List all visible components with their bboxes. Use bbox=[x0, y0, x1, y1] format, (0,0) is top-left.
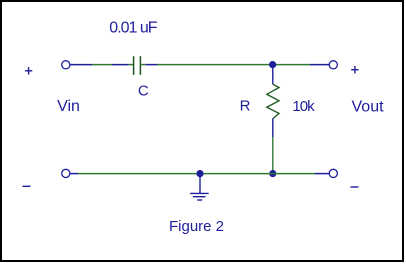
polarity minus (Vout) bbox=[351, 186, 359, 188]
terminal T2 (Vout +) bbox=[329, 61, 337, 69]
polarity plus (Vout) bbox=[351, 66, 358, 73]
wire top: node J1 to T2 bbox=[273, 64, 330, 66]
svg-text:R: R bbox=[240, 98, 251, 115]
svg-text:Figure 2: Figure 2 bbox=[169, 218, 224, 235]
terminal T3 (Vin -) bbox=[62, 169, 70, 177]
node J1 (junction dot) bbox=[269, 61, 276, 68]
wire bottom: T3 to ground node J3 bbox=[70, 173, 200, 175]
terminal T1 (Vin +) bbox=[62, 61, 70, 69]
svg-text:Vout: Vout bbox=[352, 98, 385, 115]
capacitor C plates bbox=[134, 56, 141, 75]
terminal T4 (Vout -) bbox=[329, 169, 337, 177]
polarity plus (Vin) bbox=[25, 67, 32, 74]
node J3 (ground junction dot) bbox=[196, 170, 203, 177]
wire top: T1 to capacitor C left plate bbox=[70, 64, 133, 66]
wire top: capacitor C right plate to node J1 bbox=[141, 64, 273, 66]
ground symbol bbox=[190, 174, 209, 200]
polarity minus (Vin) bbox=[23, 185, 31, 187]
wire bottom: ground node J3 to node J2 and T4 bbox=[200, 173, 329, 175]
resistor R (vertical zigzag with leads) bbox=[267, 65, 279, 137]
svg-text:10k: 10k bbox=[292, 98, 315, 115]
wire: resistor R bottom lead to node J2 bbox=[272, 137, 274, 172]
svg-text:C: C bbox=[138, 83, 149, 100]
svg-text:Vin: Vin bbox=[57, 98, 80, 115]
svg-text:0.01 uF: 0.01 uF bbox=[109, 20, 157, 37]
node J2 (junction dot) bbox=[269, 170, 276, 177]
